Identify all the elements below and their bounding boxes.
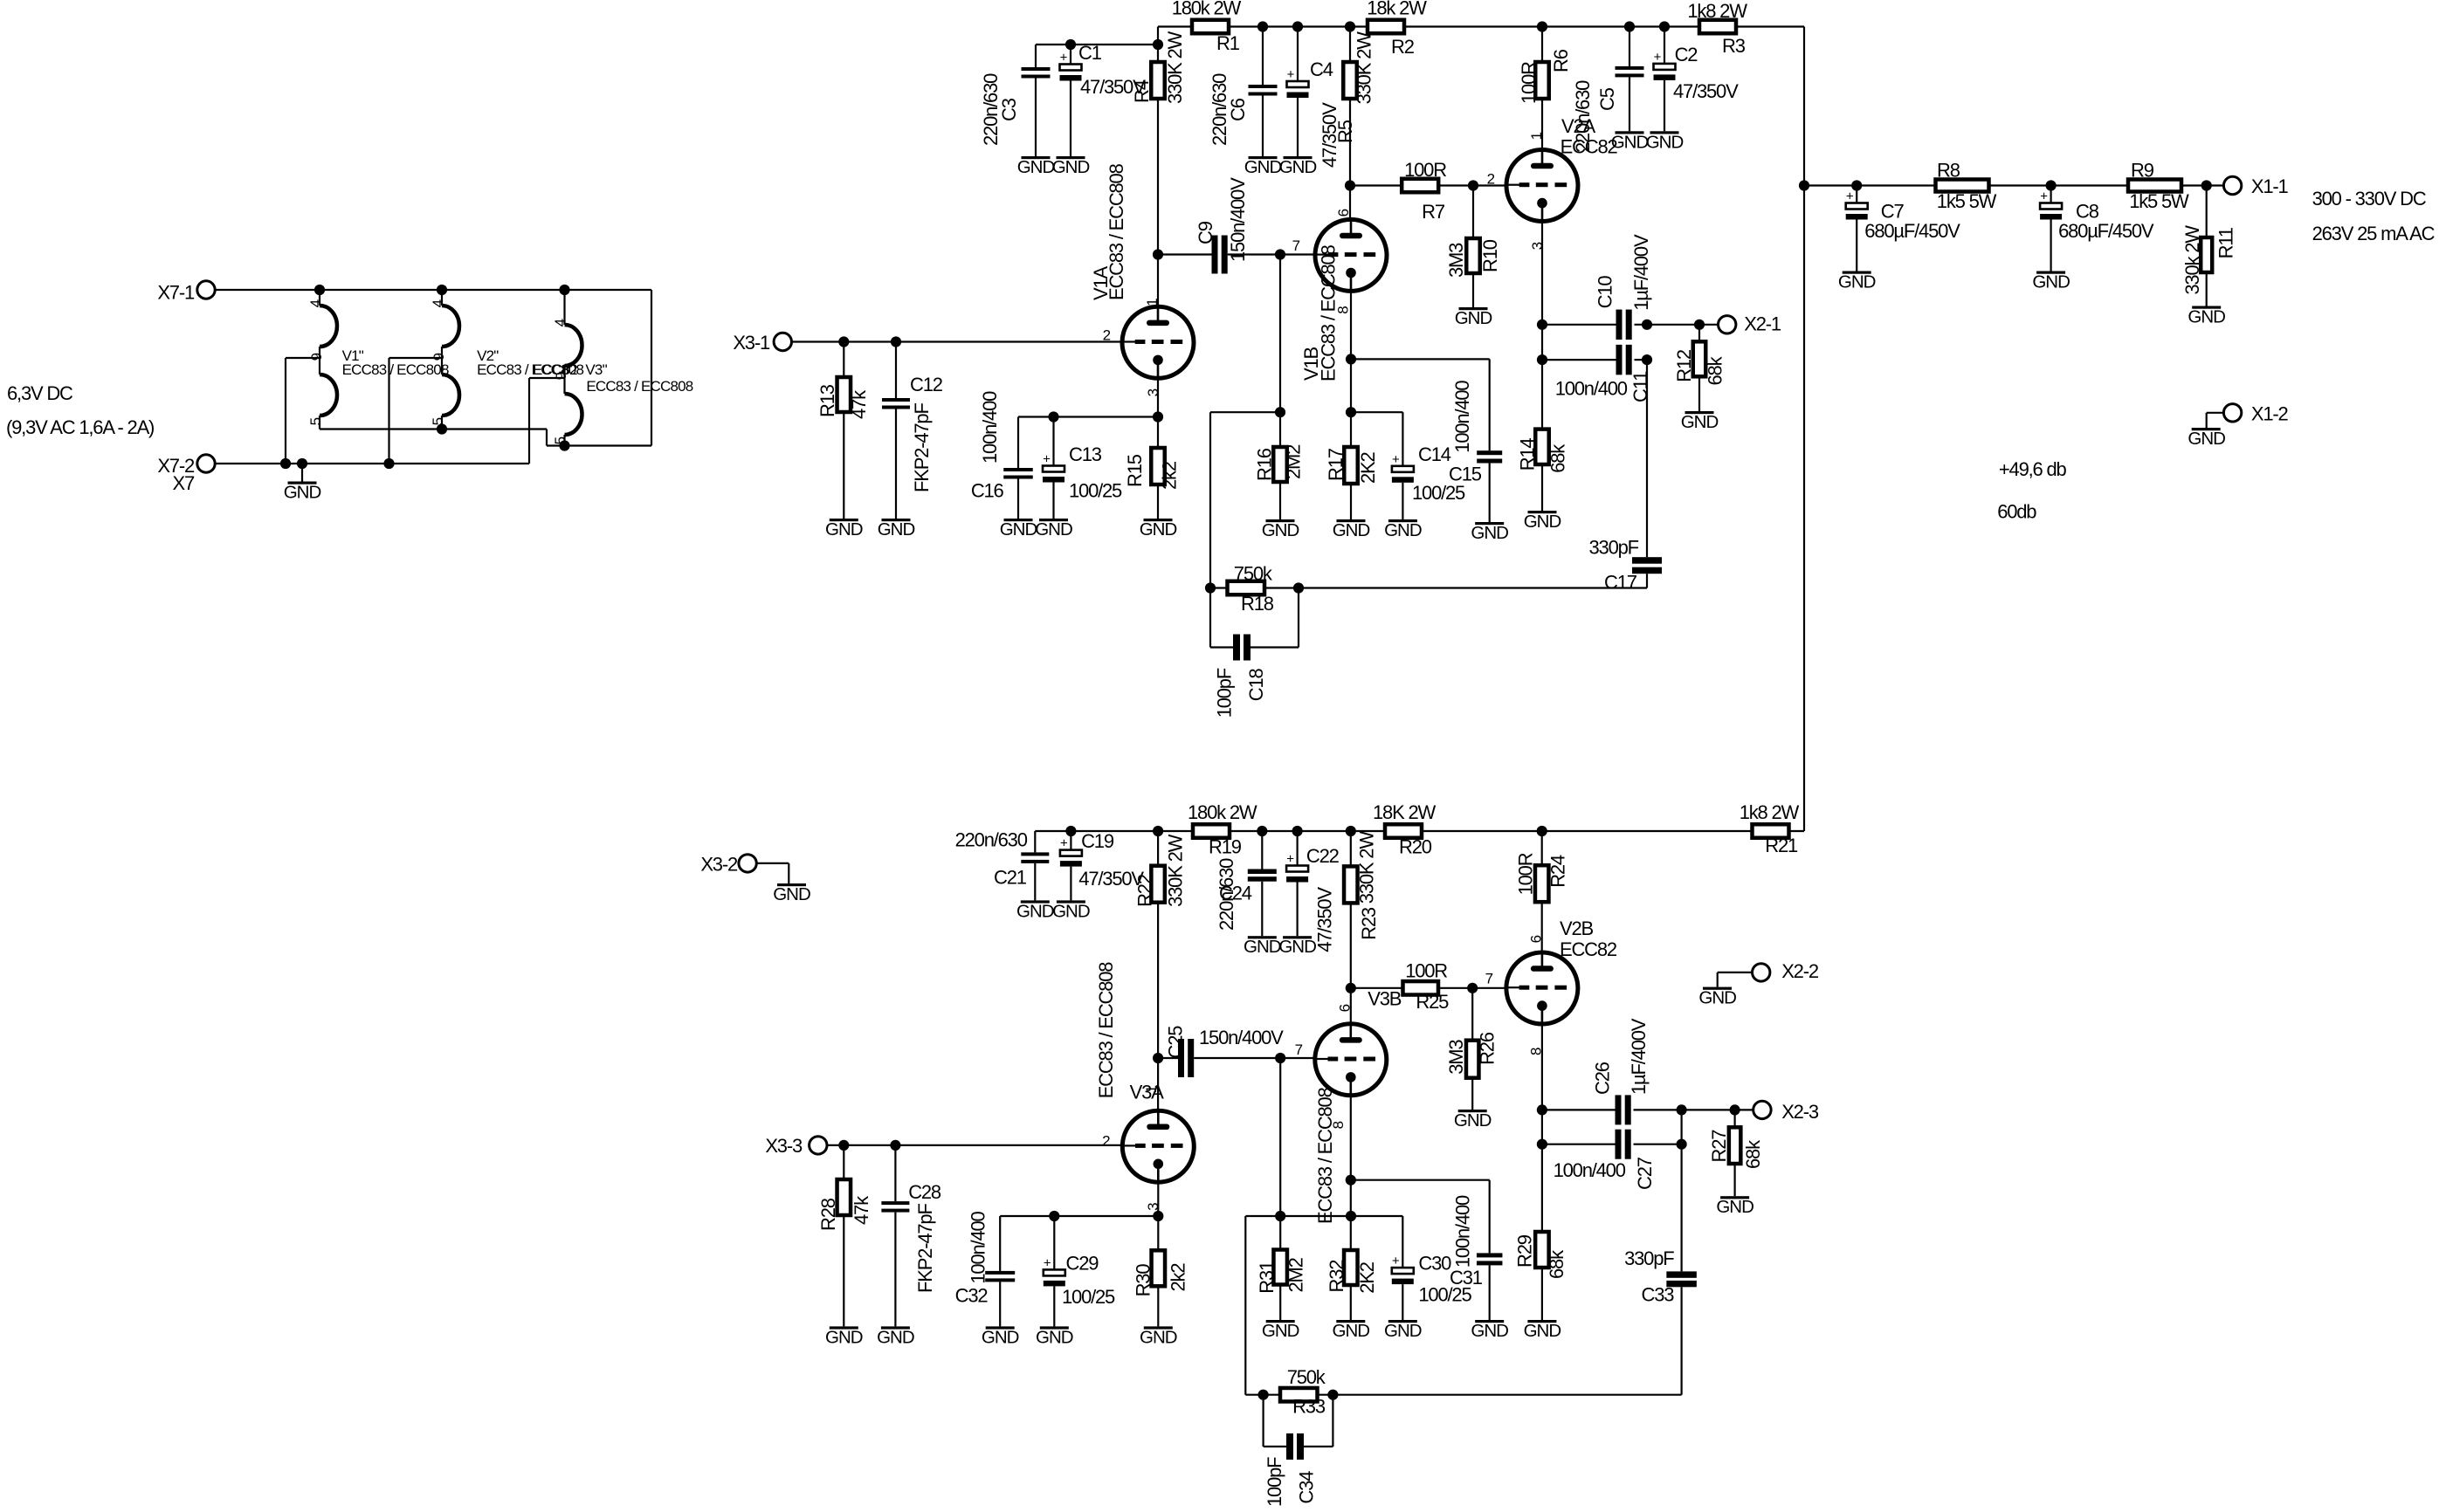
svg-text:R19: R19 (1209, 836, 1242, 858)
svg-text:C32: C32 (955, 1284, 989, 1306)
svg-text:C24: C24 (1219, 883, 1252, 904)
svg-text:R26: R26 (1477, 1032, 1499, 1065)
svg-text:GND: GND (1016, 901, 1054, 921)
svg-text:GND: GND (1333, 1321, 1370, 1341)
svg-text:330K 2W: 330K 2W (1164, 31, 1186, 104)
svg-text:GND: GND (878, 519, 915, 540)
svg-text:150n/400V: 150n/400V (1199, 1027, 1284, 1048)
svg-text:100/25: 100/25 (1412, 482, 1465, 504)
svg-text:330pF: 330pF (1624, 1247, 1674, 1269)
svg-text:180k 2W: 180k 2W (1188, 801, 1257, 823)
svg-text:GND: GND (825, 519, 863, 540)
svg-text:150n/400V: 150n/400V (1227, 177, 1249, 262)
svg-text:GND: GND (773, 884, 810, 904)
svg-text:9: 9 (553, 372, 569, 380)
svg-text:+: + (1392, 1254, 1400, 1268)
svg-text:GND: GND (877, 1327, 914, 1347)
svg-text:GND: GND (2188, 429, 2225, 449)
svg-text:X3-1: X3-1 (733, 332, 770, 354)
svg-text:+: + (1392, 452, 1400, 467)
svg-text:2K2: 2K2 (1357, 451, 1379, 484)
svg-text:330K 2W: 330K 2W (1353, 31, 1375, 105)
svg-text:680µF/450V: 680µF/450V (2058, 220, 2154, 242)
svg-text:2k2: 2k2 (1159, 461, 1181, 490)
svg-text:18k 2W: 18k 2W (1367, 0, 1427, 19)
svg-text:R6: R6 (1550, 49, 1572, 72)
svg-text:+: + (1060, 51, 1068, 65)
svg-text:C7: C7 (1881, 200, 1905, 222)
svg-text:R14: R14 (1516, 438, 1538, 471)
svg-text:9: 9 (431, 353, 447, 361)
svg-text:C29: C29 (1066, 1252, 1099, 1274)
svg-text:1µF/400V: 1µF/400V (1630, 234, 1652, 311)
svg-text:GND: GND (1052, 157, 1090, 177)
svg-text:R25: R25 (1416, 991, 1449, 1013)
svg-text:2: 2 (1102, 1132, 1110, 1149)
svg-text:1k5 5W: 1k5 5W (1937, 190, 1997, 212)
svg-text:1k8 2W: 1k8 2W (1687, 0, 1747, 22)
svg-text:100/25: 100/25 (1418, 1284, 1471, 1306)
svg-text:100n/400: 100n/400 (1452, 1195, 1474, 1268)
svg-text:100R: 100R (1518, 62, 1540, 104)
svg-text:+: + (1286, 852, 1294, 867)
svg-text:1µF/400V: 1µF/400V (1628, 1018, 1650, 1095)
svg-text:100n/400: 100n/400 (1555, 378, 1628, 400)
svg-text:47k: 47k (848, 389, 870, 419)
svg-text:100n/400: 100n/400 (967, 1211, 989, 1283)
svg-text:+: + (1654, 50, 1662, 65)
svg-text:9: 9 (308, 353, 325, 361)
svg-text:680µF/450V: 680µF/450V (1864, 220, 1960, 242)
svg-text:GND: GND (1471, 1321, 1508, 1341)
svg-text:7: 7 (1485, 971, 1493, 987)
svg-text:68k: 68k (1546, 1249, 1567, 1279)
svg-text:GND: GND (1017, 157, 1055, 177)
svg-text:R16: R16 (1254, 448, 1276, 481)
svg-text:R30: R30 (1133, 1264, 1154, 1297)
svg-text:GND: GND (1052, 901, 1090, 921)
svg-text:60db: 60db (1997, 501, 2036, 523)
svg-text:FKP2-47pF: FKP2-47pF (914, 1204, 936, 1293)
svg-text:R9: R9 (2131, 160, 2154, 182)
svg-text:V3B: V3B (1368, 987, 1402, 1009)
svg-text:300 - 330V DC: 300 - 330V DC (2312, 188, 2427, 210)
svg-text:GND: GND (1035, 519, 1072, 540)
svg-text:330K 2W: 330K 2W (1356, 831, 1378, 904)
svg-text:R2: R2 (1391, 36, 1415, 58)
svg-text:V3A: V3A (1130, 1081, 1165, 1103)
svg-text:GND: GND (1279, 157, 1317, 177)
svg-text:C21: C21 (994, 867, 1027, 889)
svg-text:X7-1: X7-1 (157, 281, 195, 303)
svg-text:ECC82: ECC82 (1560, 938, 1617, 960)
svg-text:ECC83 / ECC808: ECC83 / ECC808 (586, 378, 692, 395)
svg-text:C10: C10 (1595, 276, 1616, 309)
svg-text:6: 6 (1335, 209, 1352, 216)
svg-text:R32: R32 (1326, 1260, 1347, 1293)
svg-text:2: 2 (1487, 171, 1495, 188)
svg-text:100n/400: 100n/400 (1554, 1159, 1626, 1181)
svg-text:68k: 68k (1705, 355, 1726, 385)
svg-text:750k: 750k (1234, 563, 1273, 585)
svg-text:R11: R11 (2215, 227, 2237, 258)
svg-text:R3: R3 (1722, 35, 1746, 57)
svg-text:47/350V: 47/350V (1673, 80, 1739, 102)
svg-text:1: 1 (1528, 132, 1545, 140)
svg-text:GND: GND (1611, 132, 1649, 152)
svg-text:+: + (1060, 836, 1068, 851)
svg-text:ECC83 / ECC808: ECC83 / ECC808 (1106, 163, 1127, 300)
svg-text:GND: GND (1262, 520, 1299, 540)
svg-text:220n/630: 220n/630 (1572, 80, 1594, 153)
svg-text:330K 2W: 330K 2W (1164, 834, 1186, 907)
svg-text:R33: R33 (1292, 1395, 1326, 1417)
svg-text:C3: C3 (998, 98, 1020, 121)
svg-text:R10: R10 (1479, 239, 1501, 272)
svg-text:GND: GND (1716, 1197, 1753, 1217)
svg-text:GND: GND (1140, 1327, 1177, 1347)
svg-text:GND: GND (1524, 1321, 1561, 1341)
svg-text:R21: R21 (1765, 835, 1798, 856)
svg-text:V3": V3" (585, 361, 607, 378)
svg-text:3: 3 (1529, 242, 1546, 250)
svg-text:6: 6 (1528, 935, 1545, 943)
svg-text:8: 8 (1335, 306, 1352, 314)
svg-text:C19: C19 (1081, 830, 1114, 852)
svg-text:C17: C17 (1604, 572, 1637, 594)
svg-text:C14: C14 (1418, 443, 1451, 465)
svg-text:GND: GND (1244, 157, 1282, 177)
svg-text:6,3V DC: 6,3V DC (7, 382, 73, 404)
svg-text:47/350V: 47/350V (1313, 887, 1335, 952)
svg-text:C25: C25 (1164, 1026, 1186, 1059)
svg-text:C28: C28 (908, 1181, 941, 1203)
svg-text:C27: C27 (1634, 1157, 1656, 1190)
svg-text:GND: GND (1262, 1321, 1299, 1341)
svg-text:1k5 5W: 1k5 5W (2129, 190, 2189, 212)
svg-text:GND: GND (1681, 412, 1719, 432)
svg-text:180k 2W: 180k 2W (1172, 0, 1242, 19)
svg-text:100n/400: 100n/400 (1451, 381, 1473, 453)
svg-text:C34: C34 (1295, 1471, 1317, 1504)
svg-text:330k 2W: 330k 2W (2181, 225, 2203, 295)
svg-text:R23: R23 (1358, 907, 1380, 940)
svg-text:GND: GND (982, 1327, 1019, 1347)
svg-text:330pF: 330pF (1589, 537, 1639, 559)
svg-text:R29: R29 (1513, 1234, 1535, 1268)
svg-text:X2-1: X2-1 (1744, 313, 1781, 335)
svg-text:100pF: 100pF (1213, 668, 1235, 718)
svg-text:GND: GND (2032, 272, 2070, 292)
svg-text:68k: 68k (1742, 1139, 1764, 1169)
svg-text:ECC83 / ECC808: ECC83 / ECC808 (342, 361, 449, 378)
svg-text:R8: R8 (1937, 160, 1960, 182)
svg-text:X1-1: X1-1 (2251, 175, 2289, 197)
svg-text:47k: 47k (851, 1195, 872, 1225)
svg-text:GND: GND (1140, 519, 1177, 540)
svg-text:GND: GND (1455, 308, 1492, 328)
svg-text:2M2: 2M2 (1285, 1257, 1307, 1292)
svg-text:C12: C12 (910, 374, 943, 395)
svg-text:100R: 100R (1405, 960, 1447, 982)
svg-text:C16: C16 (971, 480, 1004, 502)
svg-text:GND: GND (1646, 132, 1684, 152)
svg-text:GND: GND (1036, 1327, 1073, 1347)
svg-text:18K 2W: 18K 2W (1373, 801, 1436, 823)
svg-text:3: 3 (1145, 388, 1161, 396)
svg-text:2K2: 2K2 (1356, 1261, 1378, 1294)
svg-text:+: + (1043, 452, 1051, 467)
svg-text:ECC83 / ECC808: ECC83 / ECC808 (1314, 1087, 1336, 1224)
svg-text:C33: C33 (1642, 1284, 1675, 1306)
svg-text:100R: 100R (1404, 159, 1446, 181)
svg-text:+: + (1044, 1255, 1051, 1270)
svg-text:GND: GND (1838, 272, 1876, 292)
svg-text:R20: R20 (1399, 836, 1432, 858)
svg-text:R1: R1 (1216, 32, 1240, 54)
svg-text:68k: 68k (1547, 443, 1569, 473)
svg-text:7: 7 (1292, 237, 1300, 254)
svg-text:C11: C11 (1629, 371, 1651, 402)
svg-text:R31: R31 (1256, 1261, 1278, 1294)
svg-text:100R: 100R (1515, 853, 1537, 895)
svg-text:+: + (2040, 189, 2048, 204)
svg-text:220n/630: 220n/630 (955, 828, 1028, 850)
svg-text:GND: GND (284, 483, 321, 503)
svg-text:100/25: 100/25 (1069, 480, 1122, 502)
svg-text:(9,3V AC 1,6A - 2A): (9,3V AC 1,6A - 2A) (6, 416, 154, 438)
svg-text:C1: C1 (1078, 42, 1102, 64)
svg-text:2M2: 2M2 (1282, 444, 1304, 479)
svg-text:4: 4 (307, 299, 324, 307)
svg-text:R18: R18 (1241, 593, 1274, 615)
svg-text:3M3: 3M3 (1445, 243, 1467, 278)
svg-text:GND: GND (2188, 307, 2225, 327)
svg-text:GND: GND (825, 1327, 863, 1347)
svg-text:C4: C4 (1310, 58, 1333, 80)
svg-text:GND: GND (1698, 988, 1736, 1008)
svg-text:C6: C6 (1227, 98, 1249, 121)
svg-text:GND: GND (1384, 1321, 1422, 1341)
svg-text:5: 5 (430, 417, 446, 425)
svg-text:C30: C30 (1418, 1253, 1451, 1275)
svg-text:263V 25 mA AC: 263V 25 mA AC (2312, 223, 2436, 244)
svg-text:X3-3: X3-3 (765, 1135, 803, 1157)
svg-text:GND: GND (1244, 937, 1281, 957)
svg-text:C18: C18 (1245, 668, 1267, 701)
svg-text:C8: C8 (2076, 200, 2099, 222)
svg-text:C2: C2 (1675, 44, 1698, 65)
svg-text:R4: R4 (1131, 79, 1153, 103)
svg-text:X1-2: X1-2 (2251, 402, 2289, 424)
svg-text:5: 5 (307, 417, 324, 425)
svg-text:X3-2: X3-2 (700, 854, 738, 876)
svg-text:7: 7 (1295, 1041, 1303, 1058)
svg-text:R7: R7 (1422, 201, 1445, 223)
svg-text:C26: C26 (1591, 1062, 1613, 1095)
svg-text:GND: GND (1454, 1110, 1492, 1131)
svg-text:X7: X7 (172, 472, 194, 494)
svg-text:R15: R15 (1124, 454, 1146, 487)
svg-text:GND: GND (1471, 523, 1508, 543)
svg-text:GND: GND (1000, 519, 1037, 540)
svg-text:6: 6 (1337, 1004, 1354, 1012)
svg-text:2k2: 2k2 (1168, 1263, 1189, 1292)
svg-text:V2B: V2B (1560, 918, 1594, 939)
svg-text:4: 4 (430, 299, 446, 307)
svg-text:+49,6 db: +49,6 db (1999, 458, 2067, 480)
svg-text:R28: R28 (817, 1198, 839, 1231)
svg-text:1: 1 (1144, 299, 1161, 306)
svg-text:GND: GND (1524, 512, 1561, 532)
svg-text:X2-2: X2-2 (1781, 960, 1819, 982)
svg-text:GND: GND (1333, 520, 1370, 540)
svg-text:+: + (1846, 189, 1854, 204)
svg-text:GND: GND (1278, 937, 1316, 957)
svg-text:4: 4 (552, 319, 568, 326)
svg-text:C22: C22 (1306, 845, 1340, 867)
svg-text:100pF: 100pF (1264, 1457, 1285, 1507)
svg-text:100n/400: 100n/400 (979, 391, 1001, 464)
svg-text:C9: C9 (1195, 221, 1216, 244)
svg-text:R27: R27 (1708, 1130, 1730, 1163)
svg-text:R13: R13 (816, 384, 838, 417)
svg-text:GND: GND (1384, 520, 1422, 540)
svg-text:+: + (1287, 67, 1295, 82)
svg-text:8: 8 (1330, 1121, 1347, 1129)
svg-text:R22: R22 (1134, 874, 1156, 907)
svg-text:3M3: 3M3 (1445, 1040, 1467, 1075)
svg-text:R5: R5 (1334, 120, 1356, 143)
svg-text:750k: 750k (1287, 1366, 1326, 1388)
svg-text:R17: R17 (1325, 448, 1347, 481)
svg-text:X2-3: X2-3 (1781, 1101, 1819, 1123)
svg-text:ECC83 / ECC808: ECC83 / ECC808 (1095, 962, 1117, 1099)
svg-text:1k8 2W: 1k8 2W (1740, 801, 1800, 823)
svg-text:100/25: 100/25 (1062, 1286, 1115, 1308)
svg-text:FKP2-47pF: FKP2-47pF (911, 403, 933, 492)
svg-text:C5: C5 (1596, 87, 1618, 111)
svg-text:C13: C13 (1069, 443, 1102, 465)
svg-text:5: 5 (552, 436, 568, 444)
svg-text:R12: R12 (1673, 349, 1695, 382)
svg-text:R24: R24 (1547, 855, 1568, 888)
